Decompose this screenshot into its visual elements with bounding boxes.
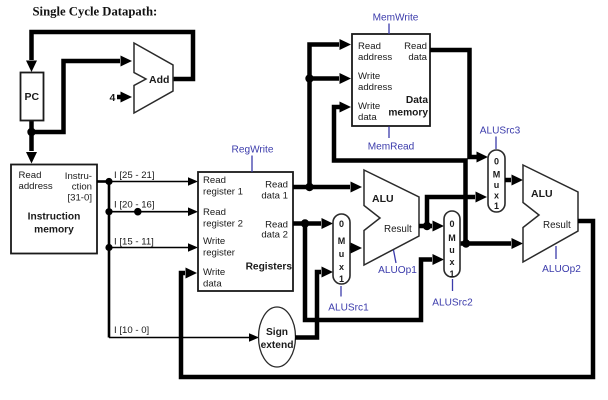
svg-text:0: 0 bbox=[449, 219, 454, 229]
wire Read data 1 branch up to Data memory Read address bbox=[310, 39, 352, 187]
node bus junction I25-21 bbox=[105, 178, 112, 185]
control label ALUSrc2 bbox=[432, 279, 473, 309]
svg-text:ALU: ALU bbox=[531, 188, 553, 200]
svg-text:Data: Data bbox=[406, 95, 428, 106]
svg-text:memory: memory bbox=[34, 225, 74, 236]
control label ALUOp2 bbox=[542, 246, 581, 275]
svg-text:Add: Add bbox=[149, 74, 169, 86]
wire ALU2 result writeback to Registers Write data bbox=[181, 221, 593, 377]
svg-text:Read: Read bbox=[203, 175, 226, 186]
svg-text:data: data bbox=[408, 52, 427, 63]
svg-text:MemRead: MemRead bbox=[368, 142, 415, 153]
svg-text:Sign: Sign bbox=[266, 327, 288, 338]
svg-text:address: address bbox=[19, 181, 53, 192]
control label RegWrite bbox=[232, 145, 274, 173]
svg-text:address: address bbox=[358, 52, 392, 63]
svg-text:MemWrite: MemWrite bbox=[373, 13, 419, 24]
svg-text:Write: Write bbox=[203, 267, 225, 278]
svg-text:I [15 - 11]: I [15 - 11] bbox=[114, 237, 154, 248]
svg-text:address: address bbox=[358, 82, 392, 93]
adder Add bbox=[134, 43, 173, 113]
svg-text:0: 0 bbox=[339, 219, 344, 229]
svg-text:ALUSrc1: ALUSrc1 bbox=[328, 303, 369, 314]
svg-text:1: 1 bbox=[449, 269, 454, 279]
node Mux2 output junction bbox=[462, 239, 470, 247]
svg-text:ALUOp2: ALUOp2 bbox=[542, 264, 581, 275]
node junction on I20-16 bbox=[134, 208, 142, 216]
wire Data memory Read data to Mux3 input 0 bbox=[430, 50, 488, 163]
svg-text:Write: Write bbox=[358, 71, 380, 82]
mux ALUSrc3 bbox=[488, 150, 505, 212]
node Read data 1 junction bbox=[305, 183, 313, 191]
mux ALUSrc1 bbox=[333, 214, 350, 284]
svg-text:Result: Result bbox=[384, 224, 412, 235]
alu ALU1 bbox=[364, 170, 419, 265]
svg-text:I [10 - 0]: I [10 - 0] bbox=[114, 325, 149, 336]
mux ALUSrc2 bbox=[444, 211, 460, 279]
wire I[20-16] to Read register 2 bbox=[109, 200, 198, 217]
svg-text:x: x bbox=[339, 262, 344, 272]
wire Mux2 output to ALU2 input 1 bbox=[460, 238, 523, 249]
control label MemWrite bbox=[373, 13, 419, 35]
wire Mux3 output to ALU2 input 0 bbox=[505, 175, 523, 186]
svg-text:memory: memory bbox=[388, 108, 428, 119]
svg-text:[31-0]: [31-0] bbox=[67, 193, 92, 204]
svg-text:data 2: data 2 bbox=[261, 230, 288, 241]
wire PC output branch to Add bbox=[32, 56, 133, 133]
wire instruction bus stub bbox=[97, 180, 109, 183]
wire Read data 1 to ALU1 bbox=[293, 182, 362, 193]
svg-text:register 1: register 1 bbox=[203, 187, 243, 198]
svg-text:Read: Read bbox=[203, 207, 226, 218]
node bus junction I15-11 bbox=[105, 244, 112, 251]
wire PC output down to instruction memory bbox=[26, 120, 37, 164]
node bus junction I20-16 bbox=[105, 208, 112, 215]
memory Data memory bbox=[352, 34, 430, 126]
svg-text:Registers: Registers bbox=[246, 262, 293, 273]
wire I[25-21] to Read register 1 bbox=[109, 170, 198, 186]
svg-text:I [25 - 21]: I [25 - 21] bbox=[114, 170, 155, 181]
control label ALUOp1 bbox=[378, 250, 417, 276]
svg-text:data: data bbox=[358, 112, 377, 123]
node ALU1 result junction bbox=[423, 222, 431, 230]
svg-text:Instruction: Instruction bbox=[28, 212, 81, 223]
svg-text:u: u bbox=[494, 180, 500, 190]
wire Add output loop to PC input bbox=[26, 32, 193, 79]
node PC output junction bbox=[27, 128, 35, 136]
svg-text:x: x bbox=[494, 191, 499, 201]
svg-text:Single Cycle Datapath:: Single Cycle Datapath: bbox=[33, 4, 158, 18]
svg-text:data 1: data 1 bbox=[261, 191, 288, 202]
svg-text:0: 0 bbox=[494, 157, 499, 167]
register PC bbox=[21, 73, 44, 121]
svg-text:x: x bbox=[449, 257, 454, 267]
wire constant 4 into Add bbox=[117, 92, 132, 103]
svg-text:ALUSrc2: ALUSrc2 bbox=[432, 298, 473, 309]
control label MemRead bbox=[368, 127, 415, 153]
svg-text:RegWrite: RegWrite bbox=[232, 145, 274, 156]
svg-text:extend: extend bbox=[261, 340, 294, 351]
node Read data 2 junction bbox=[301, 219, 309, 227]
svg-text:Read: Read bbox=[358, 41, 381, 52]
svg-text:Write: Write bbox=[358, 101, 380, 112]
oval Sign extend bbox=[259, 307, 296, 367]
svg-text:M: M bbox=[338, 236, 346, 246]
wire branch to Write address bbox=[310, 73, 352, 84]
svg-text:I [20 - 16]: I [20 - 16] bbox=[114, 200, 155, 211]
memory Instruction memory bbox=[11, 165, 97, 254]
svg-text:Result: Result bbox=[543, 220, 571, 231]
wire Write data net into Data memory bbox=[334, 102, 466, 242]
svg-text:ALU: ALU bbox=[372, 193, 394, 205]
wire I[10-0] to Sign extend bbox=[109, 325, 259, 342]
alu ALU2 bbox=[523, 165, 578, 262]
svg-text:register: register bbox=[203, 248, 236, 259]
wire ALU1 result to Mux2 input 0 bbox=[419, 221, 444, 232]
wire ALU1 result branch up to Mux3 input 1 bbox=[427, 192, 487, 227]
svg-text:ALUOp1: ALUOp1 bbox=[378, 265, 417, 276]
svg-text:4: 4 bbox=[110, 92, 116, 104]
svg-text:u: u bbox=[449, 245, 455, 255]
svg-text:PC: PC bbox=[25, 91, 40, 103]
control label ALUSrc3 bbox=[480, 126, 521, 150]
svg-text:M: M bbox=[448, 233, 456, 243]
svg-text:1: 1 bbox=[339, 274, 344, 284]
wire Mux1 output to ALU1 bbox=[350, 243, 362, 254]
svg-text:M: M bbox=[493, 170, 501, 180]
svg-text:Read: Read bbox=[265, 180, 288, 191]
svg-text:ction: ction bbox=[72, 182, 92, 193]
wire I[15-11] to Write register bbox=[109, 237, 198, 252]
svg-text:Read: Read bbox=[19, 170, 42, 181]
svg-text:Write: Write bbox=[203, 236, 225, 247]
svg-text:1: 1 bbox=[494, 201, 499, 211]
control label ALUSrc1 bbox=[328, 286, 369, 314]
register file Registers bbox=[198, 172, 293, 291]
svg-text:u: u bbox=[339, 249, 345, 259]
wire instruction bus vertical bbox=[108, 182, 111, 338]
wire Read data 2 branch down and around to Mux2 input 1 bbox=[305, 224, 444, 321]
svg-text:data: data bbox=[203, 279, 222, 290]
svg-text:register 2: register 2 bbox=[203, 219, 243, 230]
svg-text:Read: Read bbox=[404, 41, 427, 52]
node Write address junction bbox=[305, 74, 313, 82]
wire Read data 2 to Mux1 bbox=[293, 218, 333, 229]
wire Sign extend output to Mux1 input 1 bbox=[295, 267, 333, 338]
svg-text:Instru-: Instru- bbox=[65, 171, 92, 182]
svg-text:ALUSrc3: ALUSrc3 bbox=[480, 126, 521, 137]
